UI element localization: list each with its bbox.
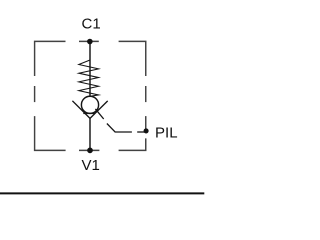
svg-text:V1: V1 bbox=[82, 157, 100, 174]
svg-text:C1: C1 bbox=[82, 16, 101, 33]
svg-text:PIL: PIL bbox=[155, 124, 178, 141]
